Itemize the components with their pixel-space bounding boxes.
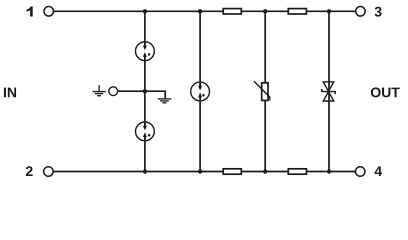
label 2: [26, 166, 33, 176]
label 1: [27, 7, 33, 17]
earth symbol (left of PE terminal): [93, 85, 106, 96]
wire column 1 middle segment: [144, 61, 146, 122]
junction top rail x=265.2: [263, 9, 267, 13]
resistor top R2: [288, 9, 306, 14]
wire column 3 lower: [264, 101, 266, 172]
junction top rail x=329: [327, 9, 331, 13]
wire column 3 upper (x=265.2): [264, 11, 266, 82]
wire column 1 upper (x=144.9): [144, 11, 146, 41]
gas discharge tube F2 (bottom left): [136, 122, 155, 141]
gas discharge tube F3 (middle): [191, 82, 210, 101]
terminal 3: [356, 7, 366, 16]
junction top rail x=144.9: [143, 9, 147, 13]
terminal 1: [44, 7, 54, 16]
resistor bottom R3: [223, 169, 241, 174]
wire column 4 (x=329): [328, 11, 330, 171]
suppressor diode (bidirectional TVS): [322, 82, 335, 101]
wire bottom rail: [54, 171, 355, 173]
resistor bottom R4: [288, 169, 306, 174]
label 3: [375, 7, 382, 17]
wire column 1 lower segment: [144, 141, 146, 172]
terminal 4: [355, 167, 365, 177]
junction middle PE node: [143, 89, 147, 93]
label 4: [375, 166, 383, 176]
ground symbol (right, below PE wire): [158, 99, 172, 103]
junction bottom rail x=200.1: [198, 169, 202, 173]
junction bottom rail x=329: [327, 169, 331, 173]
junction bottom rail x=265.2: [263, 169, 267, 173]
junction bottom rail x=144.9: [143, 169, 147, 173]
label IN: [4, 88, 16, 98]
terminal 2: [44, 167, 54, 177]
gas discharge tube F1 (top left): [136, 42, 155, 61]
label OUT: [371, 87, 400, 97]
resistor top R1: [223, 9, 241, 14]
wire column 2 lower: [199, 101, 201, 171]
varistor: [254, 81, 270, 100]
junction top rail x=200.1: [198, 9, 202, 13]
wire column 2 upper (x=200.1): [199, 11, 201, 82]
wire middle PE branch: [118, 91, 165, 98]
PE terminal circle: [109, 87, 118, 96]
wire top rail: [54, 10, 355, 12]
